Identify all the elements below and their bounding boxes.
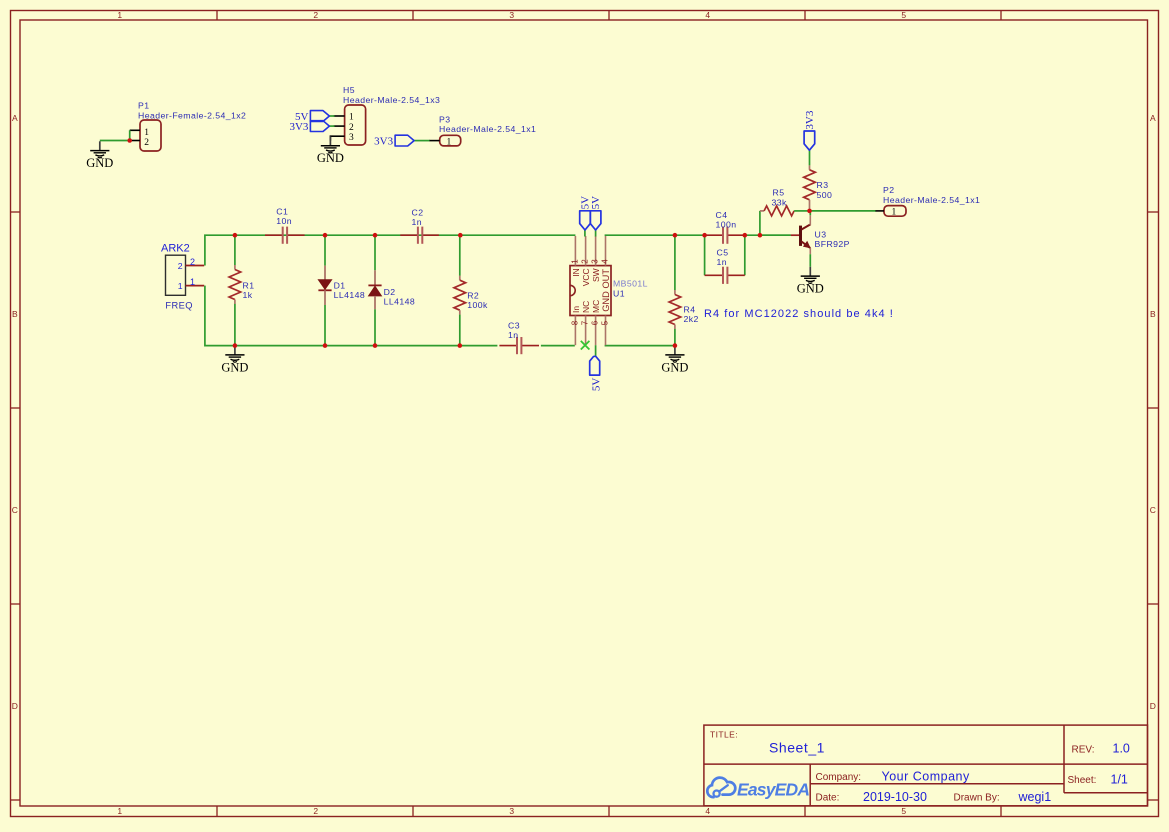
resistor R3 500 (804, 150, 833, 211)
svg-text:2: 2 (581, 259, 590, 264)
svg-text:4: 4 (600, 259, 609, 264)
svg-text:NC: NC (581, 301, 591, 313)
svg-text:R4 for MC12022 should be 4k4 !: R4 for MC12022 should be 4k4 ! (704, 308, 894, 320)
ground GND (R1) (221, 346, 248, 375)
net flag 5V (U1 pin3) (590, 196, 602, 230)
connector P2 Header-Male-2.54_1x1 (876, 185, 981, 218)
svg-text:A: A (12, 113, 18, 123)
capacitor C4 (705, 210, 745, 244)
svg-text:Header-Female-2.54_1x2: Header-Female-2.54_1x2 (138, 111, 246, 121)
junction R1 top (233, 233, 238, 238)
svg-text:8: 8 (570, 320, 579, 325)
junction P1 pin2/GND (127, 138, 132, 143)
ground GND (U3) (797, 267, 824, 296)
svg-text:FREQ: FREQ (165, 301, 193, 311)
svg-text:3V3: 3V3 (804, 110, 816, 129)
svg-text:1: 1 (190, 277, 195, 287)
svg-text:C1: C1 (276, 207, 288, 217)
junction D2 bottom (373, 343, 378, 348)
svg-text:1: 1 (447, 137, 452, 147)
svg-text:Header-Male-2.54_1x3: Header-Male-2.54_1x3 (343, 95, 440, 105)
wire U1 pin6 to 5V (595, 345, 597, 356)
resistor R1 (229, 235, 254, 345)
junction R2 top (458, 233, 463, 238)
net flag 5V (U1 pin2) (579, 196, 591, 230)
wire 3V3 to H5 pin2 (330, 125, 335, 127)
svg-text:Your Company: Your Company (882, 770, 970, 784)
svg-text:1n: 1n (717, 257, 728, 267)
svg-text:2: 2 (313, 10, 318, 20)
svg-text:Sheet:: Sheet: (1068, 775, 1097, 786)
junction C4/C5 right (743, 233, 748, 238)
svg-text:SW: SW (591, 268, 601, 282)
svg-text:LL4148: LL4148 (334, 290, 366, 300)
junction D1 bottom (323, 343, 328, 348)
U1 pin 4 line (605, 236, 607, 266)
svg-text:R3: R3 (817, 180, 829, 190)
svg-text:wegi1: wegi1 (1018, 790, 1052, 804)
svg-text:1: 1 (349, 113, 354, 123)
diode D1 LL4148 (318, 235, 365, 345)
op-amp U1 MB501L (570, 236, 648, 345)
svg-text:D2: D2 (384, 287, 396, 297)
svg-text:C2: C2 (412, 207, 424, 217)
wire ARK2 pin2 up to top rail (205, 235, 235, 265)
svg-text:1n: 1n (412, 217, 423, 227)
ground GND (H5) (317, 136, 344, 165)
ground GND (P1) (86, 141, 113, 170)
svg-text:1.0: 1.0 (1113, 742, 1130, 756)
svg-text:3V3: 3V3 (374, 135, 393, 147)
svg-text:B: B (12, 309, 18, 319)
svg-text:P3: P3 (439, 114, 450, 124)
svg-text:H5: H5 (343, 85, 355, 95)
junction C4/C5 left (702, 233, 707, 238)
capacitor C5 (705, 248, 745, 284)
svg-text:In: In (571, 306, 581, 313)
svg-text:3: 3 (509, 806, 514, 816)
svg-text:C5: C5 (717, 248, 729, 258)
wire 3V3 to P3 (414, 140, 429, 142)
svg-text:C: C (1150, 505, 1157, 515)
svg-text:R2: R2 (467, 291, 479, 301)
wire top rail left (R1..U1 pin1) (235, 234, 576, 236)
svg-text:D1: D1 (334, 281, 346, 291)
svg-text:5V: 5V (590, 378, 602, 392)
U1 pin 7 line (585, 316, 587, 346)
junction collector/R3/R5/P2 node (807, 209, 812, 214)
wire top rail right (U1 pin4 to C4) (605, 234, 705, 236)
svg-text:D: D (12, 701, 19, 711)
svg-text:6: 6 (591, 320, 600, 325)
svg-text:MB501L: MB501L (613, 279, 648, 289)
svg-text:1k: 1k (243, 290, 253, 300)
svg-text:3: 3 (349, 133, 354, 143)
net flag 5V (U1 pin6) (590, 356, 603, 391)
wire C5 left leg (704, 235, 706, 275)
svg-text:GND: GND (221, 360, 248, 374)
svg-text:C3: C3 (508, 321, 520, 331)
capacitor C1 (265, 207, 305, 244)
wire base node up to R5 (759, 211, 761, 235)
wire U1 pin2 to 5V (584, 230, 586, 237)
svg-text:2: 2 (349, 123, 354, 133)
net flag 3V3 (R3) (804, 110, 816, 150)
resistor R5 33k (760, 188, 810, 216)
svg-text:BFR92P: BFR92P (815, 239, 850, 249)
svg-text:R1: R1 (243, 280, 255, 290)
diode D2 LL4148 (368, 235, 415, 345)
svg-text:R5: R5 (773, 188, 785, 198)
svg-text:1: 1 (178, 281, 183, 291)
svg-text:100k: 100k (467, 300, 488, 310)
svg-text:3: 3 (509, 10, 514, 20)
connector ARK2 (FREQ) (161, 242, 204, 310)
resistor R2 (454, 235, 488, 345)
svg-text:100n: 100n (716, 220, 737, 230)
svg-text:1/1: 1/1 (1111, 773, 1128, 787)
svg-text:5: 5 (901, 806, 906, 816)
connector P3 Header-Male-2.54_1x1 (429, 114, 536, 147)
svg-text:Company:: Company: (816, 772, 862, 783)
net flag 3V3 (P3) (374, 135, 414, 147)
svg-text:1: 1 (117, 806, 122, 816)
U1 pin 2 line (585, 236, 587, 266)
svg-text:500: 500 (817, 190, 833, 200)
junction R1 bottom / GND (233, 343, 238, 348)
svg-text:Header-Male-2.54_1x1: Header-Male-2.54_1x1 (439, 124, 536, 134)
capacitor C3 (499, 321, 539, 355)
junction R4 bottom / GND (673, 343, 678, 348)
junction base node (758, 233, 763, 238)
svg-text:3: 3 (591, 259, 600, 264)
svg-text:2: 2 (190, 257, 195, 267)
U1 pin 5 line (605, 316, 607, 346)
svg-text:LL4148: LL4148 (384, 296, 416, 306)
junction D2 top (373, 233, 378, 238)
svg-text:1: 1 (892, 208, 897, 218)
U1 pin 6 line (595, 316, 597, 346)
svg-text:REV:: REV: (1072, 745, 1095, 756)
wire P1 pin1 to pin2 junction (129, 130, 131, 140)
svg-text:5: 5 (600, 320, 609, 325)
svg-text:5: 5 (901, 10, 906, 20)
ground GND (R4) (661, 346, 688, 375)
svg-text:Drawn By:: Drawn By: (954, 792, 1000, 803)
svg-text:D: D (1150, 701, 1157, 711)
no-connect X at U1 pin 7 (581, 341, 590, 350)
EasyEDA logo (707, 778, 809, 800)
svg-text:2019-10-30: 2019-10-30 (863, 790, 927, 804)
svg-text:Header-Male-2.54_1x1: Header-Male-2.54_1x1 (883, 195, 980, 205)
junction R2 bottom (458, 343, 463, 348)
svg-text:GND: GND (797, 282, 824, 296)
U1 pin 8 line (574, 316, 576, 346)
wire U1 pin5 to GND junction (605, 345, 675, 347)
svg-text:IN: IN (571, 268, 581, 277)
svg-text:2k2: 2k2 (684, 314, 699, 324)
svg-text:3V3: 3V3 (289, 121, 308, 133)
svg-text:P1: P1 (138, 101, 149, 111)
svg-text:GND: GND (86, 156, 113, 170)
svg-text:5V: 5V (590, 196, 602, 210)
capacitor C2 (400, 207, 439, 244)
junction R4 top (673, 233, 678, 238)
wire bottom rail left (R1..C3) (235, 345, 498, 347)
svg-text:GND: GND (661, 360, 688, 374)
svg-text:EasyEDA: EasyEDA (737, 779, 809, 799)
svg-text:GND OUT: GND OUT (601, 269, 611, 312)
connector P1 Header-Female-2.54_1x2 (130, 101, 247, 152)
transistor U3 BFR92P (760, 211, 850, 267)
wire C3 to U1 pin8 (541, 345, 575, 347)
junction D1 top (323, 233, 328, 238)
wire H5 pin3 to GND (330, 136, 333, 140)
svg-text:C4: C4 (716, 210, 728, 220)
wire P1 to GND (100, 140, 131, 142)
svg-text:1: 1 (570, 259, 579, 264)
svg-text:2: 2 (144, 138, 149, 148)
svg-text:4: 4 (705, 10, 710, 20)
svg-text:B: B (1150, 309, 1156, 319)
svg-text:Sheet_1: Sheet_1 (769, 740, 825, 756)
net flag 5V (H5 pin1) (295, 111, 329, 123)
U1 pin 3 line (595, 236, 597, 266)
svg-text:R4: R4 (684, 304, 696, 314)
svg-text:TITLE:: TITLE: (710, 730, 738, 740)
wire U1 pin3 to 5V (595, 230, 597, 237)
svg-text:VCC: VCC (581, 268, 591, 286)
svg-text:1n: 1n (508, 330, 519, 340)
svg-text:A: A (1150, 113, 1156, 123)
wire node to P2 (810, 210, 877, 212)
svg-text:GND: GND (317, 151, 344, 165)
wire ARK2 pin1 down to bottom rail (205, 286, 235, 346)
svg-text:ARK2: ARK2 (161, 242, 190, 254)
wire C5 right leg (744, 235, 746, 275)
U1 pin 1 line (574, 236, 576, 266)
title block (704, 725, 1148, 806)
wire C4 to base node (745, 234, 791, 236)
svg-text:2: 2 (313, 806, 318, 816)
svg-text:Date:: Date: (816, 792, 840, 803)
svg-text:C: C (12, 505, 19, 515)
svg-text:U3: U3 (815, 229, 827, 239)
svg-text:P2: P2 (883, 185, 894, 195)
svg-text:MC: MC (591, 300, 601, 313)
svg-text:7: 7 (581, 320, 590, 325)
svg-text:1: 1 (117, 10, 122, 20)
svg-text:1: 1 (144, 128, 149, 138)
resistor R4 (669, 235, 699, 345)
wire 5V to H5 pin1 (330, 115, 335, 117)
net flag 3V3 (H5 pin2) (289, 121, 329, 133)
svg-text:33k: 33k (772, 197, 788, 207)
connector H5 Header-Male-2.54_1x3 (334, 85, 441, 145)
svg-text:U1: U1 (613, 289, 625, 299)
svg-text:10n: 10n (276, 216, 292, 226)
svg-text:4: 4 (705, 806, 710, 816)
svg-text:2: 2 (178, 261, 183, 271)
